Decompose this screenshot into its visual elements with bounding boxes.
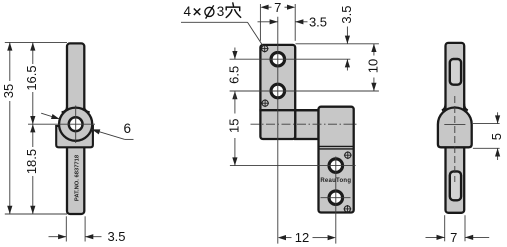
svg-text:18.5: 18.5 (24, 149, 39, 174)
svg-text:7: 7 (450, 230, 457, 245)
svg-text:5: 5 (489, 133, 504, 140)
svg-text:3.5: 3.5 (309, 14, 327, 29)
svg-text:12: 12 (295, 230, 309, 245)
svg-text:3.5: 3.5 (339, 6, 354, 24)
svg-text:6.5: 6.5 (226, 66, 241, 84)
svg-text:15: 15 (226, 119, 241, 133)
svg-text:4: 4 (184, 4, 192, 19)
svg-text:3: 3 (217, 4, 225, 19)
svg-text:7: 7 (274, 0, 281, 15)
svg-text:16.5: 16.5 (24, 65, 39, 90)
svg-text:10: 10 (365, 59, 380, 73)
svg-text:ReauTong: ReauTong (320, 178, 351, 184)
svg-text:35: 35 (1, 84, 16, 98)
svg-text:6: 6 (124, 121, 132, 136)
svg-text:3.5: 3.5 (107, 229, 125, 244)
svg-text:PAT.NO. 6837718: PAT.NO. 6837718 (75, 154, 81, 201)
